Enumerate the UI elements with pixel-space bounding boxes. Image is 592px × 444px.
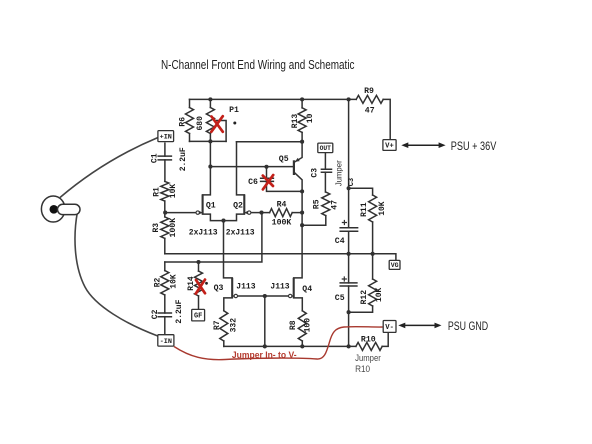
svg-text:Q3: Q3 — [214, 284, 224, 293]
svg-text:47: 47 — [365, 107, 375, 116]
svg-text:100K: 100K — [272, 218, 292, 227]
svg-text:100K: 100K — [169, 218, 178, 238]
svg-text:C3: C3 — [348, 178, 356, 186]
svg-text:R1: R1 — [152, 187, 161, 197]
svg-text:C5: C5 — [335, 294, 345, 303]
svg-text:R2: R2 — [153, 278, 162, 288]
svg-text:Q2: Q2 — [233, 201, 243, 210]
svg-text:C6: C6 — [248, 178, 258, 187]
svg-text:R8: R8 — [289, 320, 298, 330]
svg-text:J113: J113 — [236, 283, 255, 292]
svg-text:C3: C3 — [310, 168, 319, 178]
svg-text:10K: 10K — [169, 184, 178, 199]
svg-text:Jumper: Jumper — [355, 353, 381, 363]
svg-text:100: 100 — [303, 318, 312, 333]
svg-text:R7: R7 — [213, 320, 222, 330]
svg-text:PSU + 36V: PSU + 36V — [451, 140, 497, 153]
svg-text:2.2uF: 2.2uF — [179, 147, 188, 171]
svg-text:J113: J113 — [270, 283, 289, 292]
svg-text:PSU GND: PSU GND — [448, 320, 488, 333]
svg-text:Q1: Q1 — [206, 201, 216, 210]
svg-text:P1: P1 — [229, 106, 239, 115]
svg-text:R14: R14 — [187, 276, 196, 291]
svg-text:C1: C1 — [150, 153, 159, 163]
svg-text:R10: R10 — [355, 364, 370, 374]
svg-text:Q4: Q4 — [302, 285, 312, 294]
svg-text:R13: R13 — [291, 114, 300, 129]
svg-text:10K: 10K — [378, 201, 387, 216]
svg-text:R9: R9 — [364, 87, 374, 96]
svg-text:+IN: +IN — [160, 134, 172, 142]
svg-text:R10: R10 — [361, 335, 376, 344]
svg-text:C2: C2 — [151, 309, 160, 319]
svg-text:680: 680 — [196, 116, 205, 131]
svg-text:10K: 10K — [375, 288, 384, 303]
svg-text:Jumper: Jumper — [335, 160, 344, 186]
svg-text:N-Channel Front End Wiring and: N-Channel Front End Wiring and Schematic — [161, 57, 355, 72]
svg-text:R3: R3 — [152, 223, 161, 233]
svg-text:Q5: Q5 — [279, 155, 289, 164]
svg-text:332: 332 — [229, 318, 238, 333]
svg-text:R6: R6 — [178, 117, 187, 127]
svg-text:Jumper In- to V-: Jumper In- to V- — [232, 350, 297, 360]
svg-text:GF: GF — [194, 313, 202, 321]
svg-text:47: 47 — [330, 200, 339, 210]
svg-text:R4: R4 — [277, 200, 287, 209]
svg-text:VG: VG — [391, 262, 399, 269]
svg-text:OUT: OUT — [320, 145, 332, 152]
svg-text:C4: C4 — [335, 237, 345, 246]
svg-text:10: 10 — [306, 113, 315, 123]
svg-text:2xJ113: 2xJ113 — [189, 228, 218, 237]
svg-text:V-: V- — [385, 324, 394, 332]
svg-text:R12: R12 — [360, 290, 369, 305]
svg-text:R11: R11 — [360, 202, 369, 217]
svg-text:V+: V+ — [385, 143, 394, 151]
svg-text:2.2uF: 2.2uF — [175, 299, 184, 323]
svg-text:-IN: -IN — [160, 338, 172, 346]
svg-text:2xJ113: 2xJ113 — [226, 228, 255, 237]
svg-text:R5: R5 — [313, 199, 322, 209]
svg-text:10K: 10K — [169, 274, 178, 289]
